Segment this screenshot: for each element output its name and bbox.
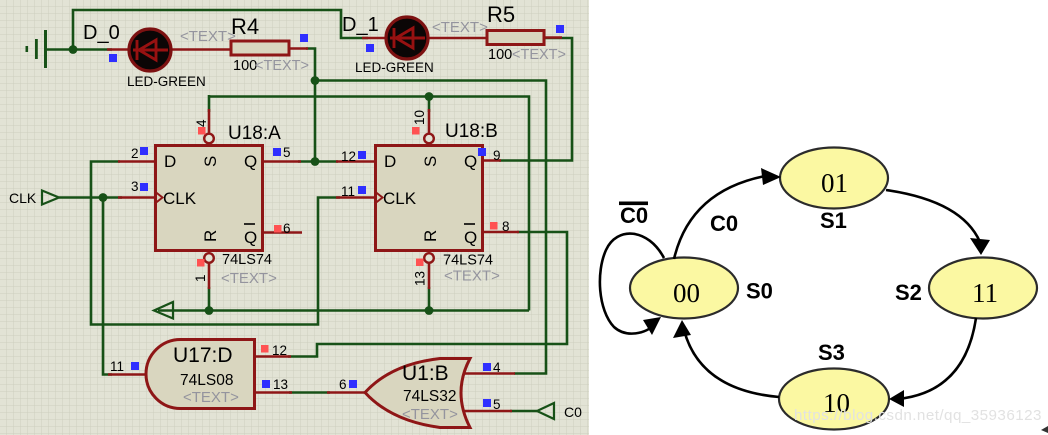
svg-text:S2: S2 [895, 280, 922, 305]
svg-text:<TEXT>: <TEXT> [180, 28, 236, 45]
svg-text:C0: C0 [620, 203, 648, 228]
svg-text:R: R [421, 230, 440, 242]
svg-text:1: 1 [193, 274, 208, 282]
svg-text:Q: Q [244, 152, 257, 171]
svg-text:Q: Q [464, 228, 477, 247]
svg-text:13: 13 [413, 271, 428, 286]
svg-text:D_1: D_1 [342, 14, 379, 36]
svg-text:U18:A: U18:A [228, 123, 281, 144]
svg-text:74LS32: 74LS32 [403, 388, 456, 405]
svg-text:R5: R5 [487, 2, 515, 27]
svg-text:12: 12 [341, 149, 356, 164]
svg-text:S3: S3 [818, 340, 845, 365]
svg-text:74LS74: 74LS74 [222, 252, 272, 268]
svg-text:https://blog.csdn.net/qq_35936: https://blog.csdn.net/qq_35936123 [794, 407, 1042, 424]
svg-text:CLK: CLK [383, 189, 417, 208]
svg-text:<TEXT>: <TEXT> [512, 47, 566, 63]
svg-text:C0: C0 [710, 211, 738, 236]
svg-text:74LS08: 74LS08 [180, 372, 233, 389]
svg-text:10: 10 [412, 110, 427, 125]
svg-text:LED-GREEN: LED-GREEN [127, 74, 206, 89]
svg-text:<TEXT>: <TEXT> [432, 19, 488, 36]
svg-text:100: 100 [233, 58, 257, 74]
svg-text:D_0: D_0 [83, 22, 120, 44]
svg-text:11: 11 [110, 359, 124, 374]
svg-text:CLK: CLK [163, 189, 197, 208]
svg-text:U1:B: U1:B [402, 362, 449, 385]
svg-text:S1: S1 [820, 208, 847, 233]
svg-text:11: 11 [972, 278, 998, 308]
svg-text:100: 100 [488, 47, 512, 63]
svg-text:5: 5 [283, 145, 291, 160]
svg-text:74LS74: 74LS74 [443, 253, 493, 269]
svg-text:5: 5 [493, 397, 501, 412]
svg-text:9: 9 [493, 148, 501, 163]
svg-text:U17:D: U17:D [173, 344, 233, 367]
svg-text:R: R [201, 230, 220, 242]
svg-text:CLK: CLK [9, 190, 37, 206]
svg-text:Q: Q [464, 152, 477, 171]
svg-text:01: 01 [821, 168, 848, 198]
svg-text:<TEXT>: <TEXT> [255, 58, 309, 74]
svg-text:6: 6 [339, 377, 347, 392]
svg-text:U18:B: U18:B [445, 121, 498, 142]
svg-text:4: 4 [194, 119, 209, 127]
svg-text:4: 4 [493, 360, 501, 375]
svg-text:S0: S0 [746, 279, 773, 304]
svg-text:<TEXT>: <TEXT> [183, 389, 239, 406]
svg-text:3: 3 [131, 179, 139, 194]
svg-text:LED-GREEN: LED-GREEN [355, 60, 434, 75]
svg-text:11: 11 [341, 184, 355, 199]
svg-text:00: 00 [673, 278, 700, 308]
svg-text:<TEXT>: <TEXT> [444, 268, 500, 285]
svg-text:<TEXT>: <TEXT> [402, 406, 458, 423]
svg-text:13: 13 [273, 377, 288, 392]
svg-text:12: 12 [272, 343, 287, 358]
svg-text:8: 8 [502, 219, 510, 234]
svg-text:Q: Q [244, 228, 257, 247]
svg-text:D: D [384, 152, 396, 171]
svg-text:6: 6 [283, 221, 291, 236]
svg-text:2: 2 [131, 146, 139, 161]
svg-text:C0: C0 [564, 404, 582, 420]
svg-text:S: S [421, 156, 440, 167]
svg-text:S: S [201, 156, 220, 167]
svg-text:<TEXT>: <TEXT> [221, 270, 277, 287]
svg-text:D: D [164, 152, 176, 171]
